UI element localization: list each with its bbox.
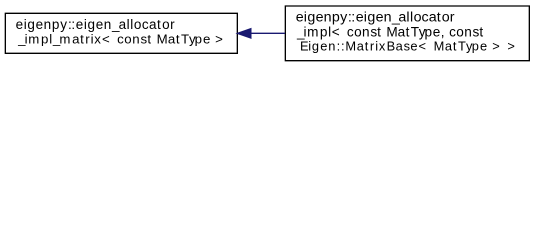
- svg-text:_impl< const MatType, const: _impl< const MatType, const: [296, 25, 483, 40]
- white graph background: [0, 0, 535, 67]
- svg-text:eigenpy::eigen_allocator: eigenpy::eigen_allocator: [296, 9, 455, 25]
- doxygen/graphviz class inheritance diagram: [0, 0, 535, 67]
- class node Node2: eigenpy::eigen_allocator_impl&lt; const MatType, const Eigen::MatrixBase&lt; MatType &gt; &gt; (white box, black border, three label lines): [285, 6, 529, 61]
- svg-text:_impl_matrix< const MatType >: _impl_matrix< const MatType >: [17, 32, 223, 47]
- inheritance edge from Node2 to Node1: midnightblue connector line: [238, 29, 285, 38]
- class node Node1: eigenpy::eigen_allocator_impl_matrix&lt; const MatType &gt; (white box, black border, two label lines): [5, 13, 237, 53]
- inheritance edge arrowhead (solid midnightblue triangle pointing at Node1): [238, 29, 251, 38]
- svg-text:Eigen::MatrixBase< MatType > >: Eigen::MatrixBase< MatType > >: [296, 39, 515, 54]
- svg-text:eigenpy::eigen_allocator: eigenpy::eigen_allocator: [16, 17, 175, 32]
